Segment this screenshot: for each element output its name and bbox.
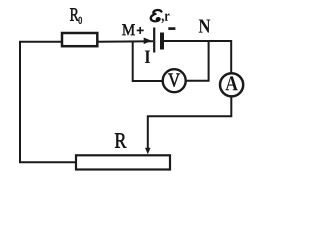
label M bbox=[122, 24, 134, 35]
label R0 bbox=[70, 8, 79, 20]
battery long plate bbox=[153, 28, 155, 53]
voltmeter V bbox=[163, 69, 186, 92]
battery short plate bbox=[160, 33, 164, 50]
label R bbox=[115, 133, 126, 147]
ammeter A bbox=[220, 73, 243, 96]
label N bbox=[199, 19, 211, 32]
label plus bbox=[137, 27, 144, 34]
current arrow I bbox=[144, 38, 152, 45]
label I bbox=[145, 51, 150, 63]
slider arrow head bbox=[145, 148, 151, 154]
rheostat R box bbox=[76, 155, 170, 169]
wire voltmeter branch right bbox=[185, 41, 209, 81]
wire ammeter bottom to slider horizontal bbox=[148, 97, 232, 151]
resistor R0 bbox=[62, 33, 97, 46]
label ,r bbox=[161, 13, 169, 23]
wire R0 to battery bbox=[98, 40, 154, 43]
label script-E (EMF) bbox=[151, 10, 162, 21]
wire battery to top-right corner and down to ammeter bbox=[164, 41, 232, 73]
wire voltmeter branch left bbox=[133, 42, 164, 82]
label minus bbox=[168, 27, 175, 30]
wire left loop bbox=[20, 42, 76, 163]
